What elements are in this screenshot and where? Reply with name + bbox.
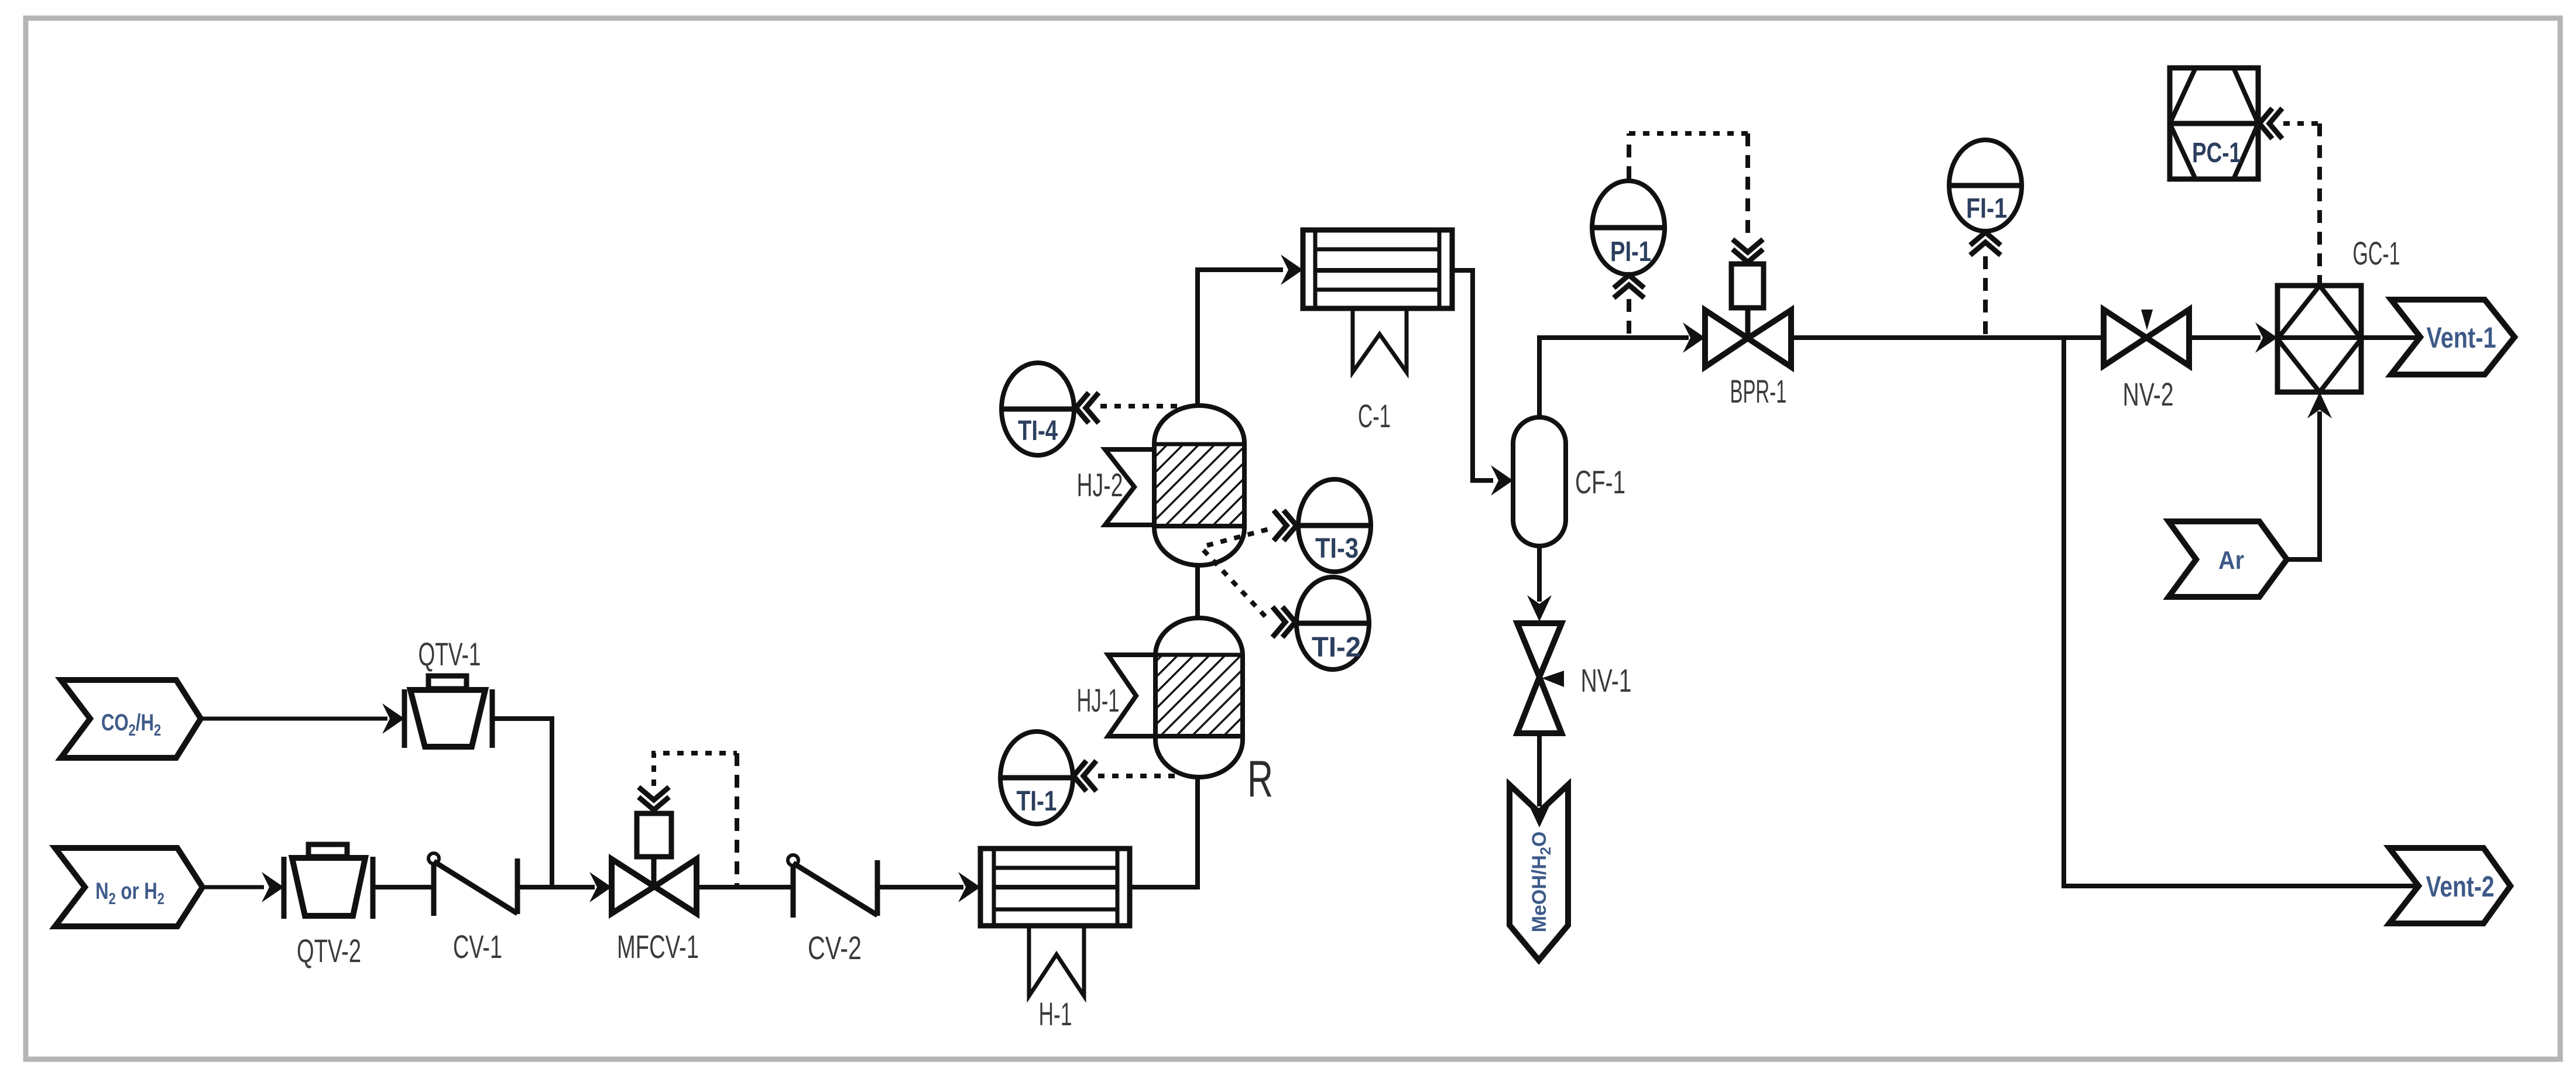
svg-text:MeOH/H2O: MeOH/H2O (1528, 832, 1554, 933)
condenser C-1 (1303, 230, 1452, 308)
svg-text:Vent-1: Vent-1 (2427, 321, 2496, 354)
heating jacket HJ-1 bracket (1108, 655, 1155, 736)
C-1 banner (1353, 308, 1407, 372)
instrument TI-4 (1001, 363, 1074, 455)
svg-text:TI-4: TI-4 (1018, 415, 1058, 447)
svg-text:QTV-1: QTV-1 (419, 636, 481, 672)
wire branch to Vent-2 (2064, 338, 2420, 886)
gas chromatograph GC-1 (2277, 286, 2361, 392)
wire H-1 to reactor riser (1130, 777, 1198, 887)
arrowhead up into GC-1 (2307, 392, 2332, 418)
node MeOH/H2O outlet flag (1510, 785, 1568, 960)
wire CV-1 to MFCV-1 (517, 885, 595, 889)
arrowhead into C-1 (1281, 255, 1303, 285)
signal chevron above BPR-1 actuator (1733, 239, 1763, 262)
wire NV-2 to GC-1 (2189, 335, 2261, 340)
instrument TI-2 (1296, 577, 1369, 669)
check valve CV-1 (428, 853, 517, 916)
signal line PI-1 tap (1627, 299, 1631, 335)
heating jacket HJ-2 bracket (1105, 449, 1154, 525)
svg-text:FI-1: FI-1 (1966, 193, 2007, 224)
node Vent-2 flag (2389, 848, 2510, 923)
arrowhead into BPR-1 (1683, 322, 1705, 353)
svg-text:Vent-2: Vent-2 (2426, 870, 2495, 903)
svg-text:N2 or H2: N2 or H2 (95, 878, 164, 908)
svg-text:HJ-1: HJ-1 (1077, 682, 1120, 719)
wire between reactor stages (1195, 565, 1200, 618)
wire CF-1 bottom to NV-1 (1537, 546, 1542, 602)
instrument FI-1 (1949, 140, 2022, 231)
svg-text:HJ-2: HJ-2 (1077, 466, 1123, 503)
signal line TI-1 to reactor (1098, 774, 1180, 778)
signal chevron at PC-1 (2259, 108, 2282, 139)
node Ar flag (2169, 521, 2287, 597)
arrowhead into QTV-1 (382, 703, 404, 734)
label CO2/H2 (101, 709, 161, 739)
svg-text:C-1: C-1 (1358, 397, 1391, 434)
arrowhead into H-1 (958, 872, 980, 902)
instrument PI-1 (1592, 181, 1665, 274)
node CO2/H2 feed flag (61, 680, 201, 758)
svg-text:H-1: H-1 (1039, 995, 1072, 1032)
arrowhead down into MeOH flag (1527, 801, 1552, 827)
wire GC-1 to Vent-1 (2361, 335, 2417, 340)
controller PC-1 (2170, 68, 2258, 179)
arrowhead down into NV-1 (1527, 595, 1552, 621)
signal line reactor to TI-2 (1203, 550, 1268, 619)
svg-text:TI-1: TI-1 (1017, 786, 1057, 817)
instrument TI-1 (1000, 731, 1073, 824)
wire reactor top to C-1 (1198, 270, 1283, 406)
svg-text:TI-2: TI-2 (1312, 632, 1361, 663)
signal line FI-1 tap (1983, 256, 1988, 335)
wire C-1 to CF-1 (1452, 270, 1493, 480)
wire N2 feed to QTV-2 (203, 885, 264, 889)
signal line TI-4 to reactor (1100, 404, 1181, 408)
back-pressure regulator BPR-1 (1705, 264, 1791, 367)
wire NV-1 to MeOH flag (1537, 733, 1542, 806)
arrowhead into GC-1 (2255, 322, 2277, 353)
heater H-1 (980, 849, 1130, 926)
wire QTV-2 to CV-1 (373, 885, 434, 889)
H-1 banner (1029, 926, 1084, 996)
signal line PI-1 to BPR-1 (1627, 133, 1631, 179)
node Vent-1 flag (2391, 300, 2515, 375)
svg-text:GC-1: GC-1 (2353, 235, 2400, 272)
signal chevron at TI-3 (1274, 510, 1296, 541)
svg-text:BPR-1: BPR-1 (1730, 373, 1787, 410)
check valve CV-2 (788, 855, 877, 918)
svg-text:TI-3: TI-3 (1315, 533, 1359, 564)
svg-text:CF-1: CF-1 (1575, 463, 1625, 500)
signal line MFCV-1 feedback (654, 753, 737, 786)
wire QTV-1 outlet down to main line (492, 719, 552, 887)
svg-text:QTV-2: QTV-2 (297, 932, 361, 969)
wire CO2 feed to QTV-1 (201, 717, 387, 721)
arrowhead into CF-1 (1491, 465, 1513, 496)
signal line reactor to TI-3 (1207, 528, 1271, 545)
svg-text:Ar: Ar (2218, 546, 2244, 575)
control valve MFCV-1 (612, 813, 697, 913)
svg-text:NV-1: NV-1 (1581, 662, 1632, 699)
instrument TI-3 (1298, 479, 1371, 572)
valve QTV-2 (284, 844, 373, 919)
reactor R lower vessel HJ-1 stage (1158, 656, 1240, 735)
signal chevron at TI-2 (1272, 607, 1295, 637)
node N2 or H2 feed flag (55, 848, 203, 926)
reactor R upper vessel HJ-2 stage (1157, 445, 1242, 525)
svg-text:CV-1: CV-1 (453, 928, 502, 965)
svg-text:PC-1: PC-1 (2192, 138, 2241, 169)
label MeOH/H2O (1528, 832, 1554, 933)
signal chevron at TI-1 (1073, 761, 1096, 791)
wire CV-2 to H-1 (877, 885, 963, 889)
svg-text:MFCV-1: MFCV-1 (617, 928, 699, 965)
signal chevron below FI-1 (1970, 232, 2001, 255)
wire CF-1 top to BPR-1 (1539, 338, 1689, 417)
arrowhead into MFCV-1 (589, 872, 612, 902)
signal line PC-1 to GC-1 (2283, 121, 2320, 126)
needle valve NV-2 (2104, 310, 2189, 366)
label N2 or H2 (95, 878, 164, 908)
svg-text:R: R (1247, 750, 1273, 808)
valve QTV-1 (404, 676, 492, 748)
cold trap CF-1 (1513, 417, 1566, 546)
svg-text:NV-2: NV-2 (2123, 376, 2174, 413)
svg-text:CV-2: CV-2 (808, 929, 862, 966)
needle valve NV-1 (1517, 623, 1564, 733)
wire MFCV-1 to CV-2 (697, 885, 793, 889)
svg-text:PI-1: PI-1 (1610, 236, 1651, 267)
wire BPR-1 to NV-2 (1791, 335, 2104, 340)
arrowhead into QTV-2 (262, 872, 284, 902)
signal chevron below PI-1 (1614, 275, 1644, 298)
signal chevron above MFCV-1 actuator (639, 787, 669, 810)
wire Ar to GC-1 (2287, 411, 2320, 559)
signal chevron at TI-4 (1076, 393, 1099, 423)
